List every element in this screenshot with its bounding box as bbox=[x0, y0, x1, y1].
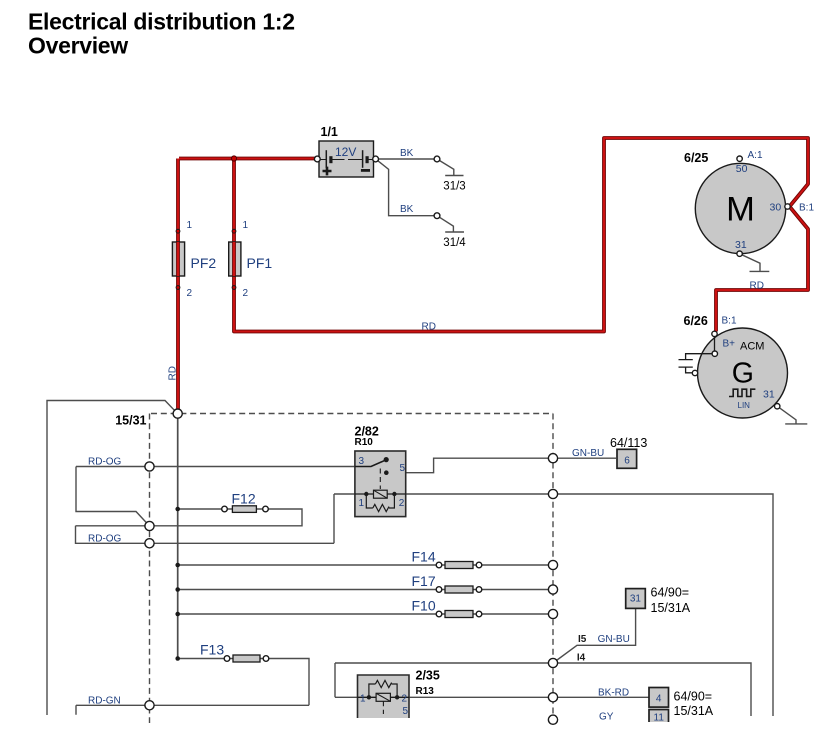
svg-text:2: 2 bbox=[187, 288, 193, 299]
svg-text:BK: BK bbox=[400, 204, 414, 215]
svg-text:64/113: 64/113 bbox=[610, 436, 647, 450]
svg-text:2: 2 bbox=[243, 288, 249, 299]
svg-text:G: G bbox=[732, 358, 754, 390]
svg-text:I4: I4 bbox=[577, 653, 586, 664]
svg-text:R10: R10 bbox=[355, 437, 374, 448]
svg-text:M: M bbox=[726, 191, 755, 229]
svg-text:RD-OG: RD-OG bbox=[88, 534, 122, 545]
svg-text:6: 6 bbox=[624, 456, 630, 467]
svg-text:A:1: A:1 bbox=[748, 150, 763, 161]
svg-text:ACM: ACM bbox=[740, 341, 764, 353]
svg-text:B+: B+ bbox=[723, 339, 736, 350]
svg-text:1: 1 bbox=[360, 694, 366, 705]
svg-text:15/31A: 15/31A bbox=[674, 704, 714, 718]
svg-text:11: 11 bbox=[654, 713, 665, 724]
svg-text:64/90=: 64/90= bbox=[674, 690, 713, 704]
svg-text:30: 30 bbox=[770, 202, 782, 214]
svg-text:F13: F13 bbox=[200, 642, 224, 658]
svg-text:B:1: B:1 bbox=[799, 203, 814, 214]
svg-text:PF2: PF2 bbox=[191, 255, 217, 271]
svg-text:BK-RD: BK-RD bbox=[598, 688, 629, 699]
svg-text:5: 5 bbox=[400, 463, 406, 474]
svg-text:R13: R13 bbox=[416, 686, 435, 697]
svg-text:1: 1 bbox=[359, 498, 365, 509]
svg-text:31: 31 bbox=[735, 239, 747, 251]
svg-text:12V: 12V bbox=[335, 145, 356, 159]
svg-text:3: 3 bbox=[359, 456, 365, 467]
svg-text:PF1: PF1 bbox=[247, 255, 273, 271]
svg-text:31: 31 bbox=[630, 594, 642, 605]
svg-text:F10: F10 bbox=[412, 598, 436, 614]
svg-text:6/25: 6/25 bbox=[684, 151, 708, 165]
svg-text:LIN: LIN bbox=[738, 401, 751, 410]
svg-text:2/35: 2/35 bbox=[416, 669, 440, 683]
svg-text:1: 1 bbox=[243, 220, 249, 231]
svg-text:RD-OG: RD-OG bbox=[88, 457, 122, 468]
svg-text:1: 1 bbox=[187, 220, 193, 231]
svg-text:Overview: Overview bbox=[28, 33, 128, 59]
svg-text:15/31A: 15/31A bbox=[651, 601, 691, 615]
svg-text:2: 2 bbox=[402, 694, 408, 705]
svg-text:64/90=: 64/90= bbox=[651, 586, 690, 600]
svg-text:50: 50 bbox=[736, 163, 748, 175]
svg-text:BK: BK bbox=[400, 148, 414, 159]
svg-text:Electrical distribution 1:2: Electrical distribution 1:2 bbox=[28, 9, 295, 35]
svg-text:1/1: 1/1 bbox=[321, 125, 338, 139]
svg-text:F17: F17 bbox=[412, 573, 436, 589]
svg-text:RD: RD bbox=[422, 322, 436, 333]
svg-text:F12: F12 bbox=[232, 491, 256, 507]
svg-text:6/26: 6/26 bbox=[684, 314, 708, 328]
svg-text:RD-GN: RD-GN bbox=[88, 696, 121, 707]
svg-text:B:1: B:1 bbox=[722, 316, 737, 327]
svg-text:I5: I5 bbox=[578, 634, 587, 645]
svg-text:31: 31 bbox=[763, 389, 775, 401]
svg-text:RD: RD bbox=[750, 280, 764, 291]
svg-text:5: 5 bbox=[403, 706, 409, 717]
svg-text:4: 4 bbox=[656, 694, 662, 705]
svg-text:GN-BU: GN-BU bbox=[572, 448, 604, 459]
svg-text:2: 2 bbox=[399, 498, 405, 509]
svg-text:31/3: 31/3 bbox=[443, 181, 465, 193]
svg-text:15/31: 15/31 bbox=[115, 414, 146, 428]
svg-text:31/4: 31/4 bbox=[443, 237, 466, 249]
svg-text:F14: F14 bbox=[412, 549, 436, 565]
svg-text:GN-BU: GN-BU bbox=[598, 634, 630, 645]
svg-text:GY: GY bbox=[599, 712, 614, 723]
svg-text:RD: RD bbox=[168, 366, 179, 380]
